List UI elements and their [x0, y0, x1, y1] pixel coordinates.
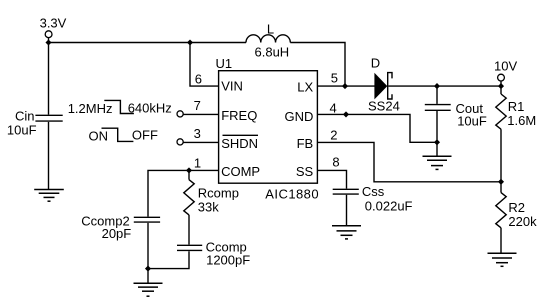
svg-text:L: L — [267, 22, 274, 37]
svg-text:10uF: 10uF — [7, 123, 37, 138]
junction Cout bottom — [434, 139, 440, 145]
capacitor Ccomp2 — [134, 216, 160, 218]
svg-text:5: 5 — [331, 70, 338, 85]
svg-text:3: 3 — [194, 126, 201, 141]
diode D SS24 — [374, 73, 387, 100]
wire R1 bottom lead — [500, 129, 502, 182]
wire R1 top lead — [500, 86, 502, 94]
svg-text:3.3V: 3.3V — [40, 15, 67, 30]
svg-text:OFF: OFF — [132, 128, 158, 143]
resistor Rcomp — [184, 180, 194, 215]
wire Ccomp2 bottom lead — [147, 223, 149, 269]
svg-text:640kHz: 640kHz — [128, 101, 172, 116]
svg-text:33k: 33k — [198, 200, 219, 215]
junction Rcomp tap — [186, 167, 192, 173]
shutdown step waveform — [102, 128, 134, 141]
wire VIN drop — [190, 43, 219, 87]
svg-text:1: 1 — [194, 156, 201, 171]
wire FB pin — [317, 142, 501, 181]
svg-text:VIN: VIN — [221, 79, 243, 94]
wire 3.3V stub — [48, 38, 50, 43]
svg-text:R2: R2 — [508, 200, 525, 215]
svg-text:6: 6 — [195, 71, 202, 86]
wire diode to output — [388, 85, 501, 87]
resistor R1 — [496, 94, 506, 129]
wire FREQ pin — [183, 113, 218, 115]
svg-text:SS24: SS24 — [368, 99, 400, 114]
junction GND pin end — [343, 111, 349, 117]
wire Cout bottom lead — [436, 111, 438, 142]
junction comp ground node — [145, 266, 151, 272]
svg-text:LX: LX — [297, 79, 313, 94]
wire comp node to ground — [147, 269, 149, 284]
junction LX node — [342, 83, 348, 89]
junction output node — [498, 83, 504, 89]
svg-text:Rcomp: Rcomp — [198, 186, 239, 201]
inductor L — [246, 35, 290, 43]
svg-text:SS: SS — [296, 164, 314, 179]
svg-text:D: D — [371, 56, 380, 71]
SHDN terminal circle — [177, 139, 183, 145]
svg-text:COMP: COMP — [221, 164, 260, 179]
wire Ccomp bottom lead — [148, 251, 189, 268]
wire Cin to ground — [48, 122, 50, 190]
wire SS pin — [317, 170, 346, 188]
wire COMP pin — [148, 170, 219, 216]
svg-text:GND: GND — [285, 109, 314, 124]
svg-text:AIC1880: AIC1880 — [265, 187, 319, 202]
svg-text:7: 7 — [194, 98, 201, 113]
wire Cin rail — [48, 43, 50, 115]
junction FB node — [498, 179, 504, 185]
ground below Cout — [423, 156, 452, 169]
junction VIN tap — [187, 39, 193, 45]
resistor R2 — [496, 193, 506, 228]
node 10V terminal circle — [498, 74, 505, 81]
ground below comp network — [134, 283, 163, 296]
svg-text:U1: U1 — [216, 56, 233, 71]
capacitor Cout — [425, 104, 451, 106]
capacitor Ccomp — [177, 244, 202, 246]
svg-text:10uF: 10uF — [457, 113, 487, 128]
FREQ terminal circle — [177, 111, 183, 117]
capacitor Cin — [35, 114, 62, 116]
svg-text:6.8uH: 6.8uH — [255, 45, 290, 60]
svg-text:1200pF: 1200pF — [206, 253, 250, 268]
frequency step waveform — [104, 100, 134, 113]
svg-text:FB: FB — [297, 136, 314, 151]
svg-text:Css: Css — [362, 184, 385, 199]
svg-text:8: 8 — [332, 154, 339, 169]
junction at 3.3V rail — [45, 39, 51, 45]
wire LX pin — [317, 85, 374, 87]
svg-text:FREQ: FREQ — [221, 108, 257, 123]
svg-text:2: 2 — [330, 127, 337, 142]
wire Cout top lead — [436, 86, 438, 104]
node 3.3V terminal circle — [45, 31, 52, 38]
ground below R2 — [488, 253, 517, 266]
junction Cout top — [434, 83, 440, 89]
wire R2 bottom lead — [500, 228, 502, 254]
wire R2 top lead — [500, 182, 502, 193]
svg-text:220k: 220k — [508, 214, 537, 229]
wire top rail right — [290, 43, 345, 87]
svg-text:1.6M: 1.6M — [507, 113, 536, 128]
svg-text:0.022uF: 0.022uF — [365, 199, 413, 214]
svg-text:20pF: 20pF — [102, 226, 132, 241]
capacitor Css — [333, 188, 359, 190]
wire top rail left — [49, 42, 247, 44]
wire Cout junction to ground — [436, 142, 438, 156]
svg-text:1.2MHz: 1.2MHz — [68, 101, 113, 116]
wire Rcomp to Ccomp — [188, 215, 190, 245]
ground below Css — [332, 226, 361, 239]
wire Css bottom lead — [346, 195, 348, 226]
svg-text:ON: ON — [89, 129, 109, 144]
IC U1 box — [219, 71, 318, 184]
svg-text:SHDN: SHDN — [221, 136, 258, 151]
svg-text:10V: 10V — [494, 59, 517, 74]
wire 10V stub — [500, 81, 502, 86]
diode cathode bar with schottky hooks — [388, 73, 392, 99]
wire SHDN pin — [183, 141, 218, 143]
ground below Cin — [34, 190, 64, 202]
wire Rcomp top lead — [188, 170, 190, 179]
wire GND pin — [317, 114, 437, 142]
SHDN overline — [223, 134, 259, 136]
svg-text:R1: R1 — [508, 99, 525, 114]
svg-text:Cin: Cin — [15, 108, 35, 123]
svg-text:4: 4 — [330, 101, 337, 116]
